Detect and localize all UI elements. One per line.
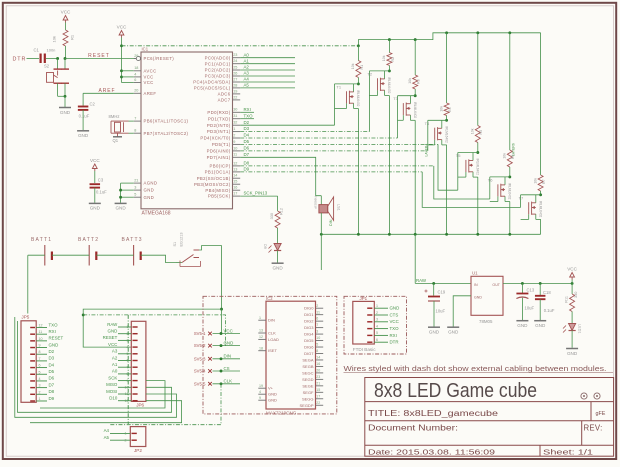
svg-text:D9: D9 [49,396,55,401]
ground below S2 [59,107,71,109]
resistor gate pull-up 10k for T6 [509,33,511,150]
svg-text:A3: A3 [244,71,250,76]
svg-text:T7: T7 [519,195,524,200]
svg-text:3: 3 [316,330,318,334]
svg-text:JP1: JP1 [360,296,368,301]
svg-text:IC1: IC1 [142,47,149,52]
svg-text:2: 2 [125,438,127,442]
svg-text:T2: T2 [367,71,372,76]
svg-text:T5: T5 [456,153,461,158]
svg-text:IRLML6402: IRLML6402 [538,201,542,218]
svg-text:27: 27 [233,77,237,81]
switch S2 reset button [57,59,59,70]
ground below C2 [77,130,89,132]
svg-text:PC3(ADC3): PC3(ADC3) [205,74,231,79]
wire layer drive D4 to T3 [240,137,397,139]
svg-text:D9: D9 [263,244,267,249]
svg-text:TXO: TXO [244,113,254,118]
svg-text:TITLE: 8x8LED_gamecube: TITLE: 8x8LED_gamecube [368,409,499,418]
svg-text:GND: GND [49,342,59,347]
capacitor C18 0.1uF [539,283,541,295]
svg-text:15: 15 [233,180,237,184]
wire gate stub T6 [497,196,499,201]
svg-text:C3: C3 [98,178,104,183]
svg-text:2: 2 [316,304,318,308]
svg-text:D2: D2 [244,120,250,125]
svg-text:PB6(XTAL1/TOSC1): PB6(XTAL1/TOSC1) [144,119,189,124]
svg-text:30: 30 [233,108,237,112]
svg-text:13: 13 [259,329,263,333]
capacitor C19 10uF [428,296,440,298]
svg-text:78M05: 78M05 [479,319,493,324]
svg-text:D7: D7 [49,382,55,387]
svg-text:D10: D10 [109,396,118,401]
wire U1 ground pin [453,296,471,327]
svg-text:8: 8 [316,349,318,353]
svg-text:9: 9 [233,140,235,144]
svg-text:PB5(SCK): PB5(SCK) [208,194,231,199]
wire VCC dash-dot bus top [122,45,359,47]
svg-text:16: 16 [233,186,237,190]
svg-text:TXO: TXO [49,322,59,327]
svg-text:15: 15 [316,388,320,392]
svg-text:DTR: DTR [13,56,27,62]
svg-text:SEGC: SEGC [302,370,313,375]
resistor gate pull-up 10k for T4 [446,33,448,103]
svg-text:11: 11 [233,153,237,157]
ground below U1 [447,326,459,328]
svg-text:R3: R3 [417,79,421,84]
transistor T1 IRLML6402 [335,83,359,85]
svg-text:GND: GND [567,351,578,356]
svg-text:20: 20 [134,89,138,93]
svg-text:PB1(OC1A): PB1(OC1A) [205,170,231,175]
svg-text:10: 10 [233,146,237,150]
wire AREF [83,92,134,94]
ground below C18 [534,320,546,322]
svg-text:CTS: CTS [390,312,399,317]
wire battery series [28,254,45,256]
svg-text:TXO: TXO [390,326,400,331]
module frame LED driver dashed [203,296,337,414]
svg-text:PD0(RXD): PD0(RXD) [207,110,230,115]
junction VCC distribution [220,308,223,311]
wire gate stub T5 [465,172,467,177]
svg-text:10k: 10k [351,63,355,69]
svg-text:VCC: VCC [144,75,154,80]
capacitor C13 10uF [521,283,523,293]
svg-text:21: 21 [134,179,138,183]
svg-text:PC0(ADC0): PC0(ADC0) [205,55,231,60]
IC1 right pins group PC [233,57,241,59]
junction gate T2 [388,69,391,72]
svg-text:A2: A2 [244,65,250,70]
wire SPI staircase D10 [30,401,182,423]
svg-text:DIG7: DIG7 [304,351,314,356]
svg-text:DIN: DIN [224,354,232,359]
svg-text:10: 10 [316,336,320,340]
wire gate stub T2 [377,90,379,95]
svg-text:DIG3: DIG3 [304,325,314,330]
svg-text:9: 9 [259,396,261,400]
title block frame [365,378,614,457]
svg-text:ISET: ISET [268,348,277,353]
svg-text:10k: 10k [52,36,57,42]
connector JP6 [131,321,146,401]
svg-text:19: 19 [233,89,237,93]
svg-text:A2: A2 [112,355,118,360]
svg-text:SEGB: SEGB [302,364,313,369]
svg-text:VCC: VCC [390,319,399,324]
svg-text:DTR: DTR [390,340,399,345]
svg-text:JP6: JP6 [136,402,144,407]
svg-text:GND: GND [108,329,118,334]
svg-text:PC5(ADC5/SCL): PC5(ADC5/SCL) [194,86,231,91]
svg-text:D4: D4 [244,133,250,138]
svg-text:D2: D2 [49,349,55,354]
svg-text:PD2(INT0): PD2(INT0) [207,123,231,128]
svg-text:PC6(/RESET): PC6(/RESET) [144,56,175,61]
svg-text:GND: GND [448,330,459,335]
wire S2 to GND [57,83,59,96]
svg-text:T4: T4 [425,121,430,126]
wire layer drive D5 to T5 [240,143,438,145]
junction gate T6 [508,175,511,178]
svg-text:3: 3 [39,384,41,388]
svg-text:GND: GND [60,110,71,115]
resistor gate pull-up 10k for T7 [540,33,542,175]
svg-text:PB2(SS/OC1B): PB2(SS/OC1B) [197,176,231,181]
svg-text:LAYER6: LAYER6 [512,143,516,156]
svg-text:PD7(AIN1): PD7(AIN1) [207,155,231,160]
wire SCK_PIN13 [240,195,277,197]
svg-text:D5: D5 [49,369,55,374]
junction gate T1 [357,82,360,85]
svg-text:U1: U1 [472,271,478,276]
svg-text:DIG4: DIG4 [304,332,314,337]
svg-text:MAX7219CNG: MAX7219CNG [266,410,297,415]
svg-text:17: 17 [233,192,237,196]
svg-text:GND: GND [224,340,234,345]
svg-text:CS: CS [224,366,230,371]
wire switch to modules VCC [199,246,222,310]
svg-text:PD5(T1): PD5(T1) [212,142,231,147]
svg-text:PC1(ADC1): PC1(ADC1) [205,61,231,66]
svg-text:MISO: MISO [106,382,118,387]
svg-text:OUT: OUT [492,283,500,287]
svg-text:IC2: IC2 [266,296,273,301]
svg-text:5: 5 [134,193,136,197]
svg-text:28: 28 [233,83,237,87]
svg-text:RXI: RXI [390,333,397,338]
svg-text:RAW: RAW [416,278,427,283]
svg-text:PD1(TXD): PD1(TXD) [208,116,231,121]
capacitor C1 100n [39,54,41,64]
ground below LED D9 [272,262,284,264]
svg-text:2: 2 [376,311,378,315]
svg-text:22: 22 [316,401,320,405]
connector JP2 [130,427,146,447]
net RXI [240,111,254,113]
wire SPI staircase SCK [40,381,165,408]
svg-text:T6: T6 [488,177,493,182]
svg-text:PB0(ICP): PB0(ICP) [210,164,231,169]
ground below C3 [89,202,101,204]
junction gate T5 [476,151,479,154]
svg-text:8MHz: 8MHz [109,114,120,119]
svg-text:4: 4 [134,72,136,76]
svg-text:10uF: 10uF [436,309,446,314]
svg-text:SV5-5: SV5-5 [194,381,206,386]
wire layer drive D3 to T2 [240,131,369,133]
svg-text:DIG0: DIG0 [304,306,314,311]
svg-text:5: 5 [376,331,378,335]
svg-text:12: 12 [233,161,237,165]
svg-text:IRLML6402: IRLML6402 [356,90,360,107]
resistor gate pull-up 10k for T2 [388,40,390,53]
svg-text:VCC: VCC [117,24,127,29]
svg-text:20: 20 [316,369,320,373]
svg-text:CLK: CLK [268,331,276,336]
svg-text:GND: GND [272,266,283,271]
junction VCC pin4 [120,75,123,78]
svg-text:1: 1 [233,127,235,131]
svg-text:BATT1: BATT1 [31,237,52,243]
svg-text:9: 9 [39,344,41,348]
svg-text:7: 7 [316,323,318,327]
svg-text:PC4(ADC4/SDA): PC4(ADC4/SDA) [193,80,230,85]
transistor T3 IRLML6402 [398,95,416,97]
svg-text:ADC6: ADC6 [218,92,231,97]
wire bus to RAW input [414,234,416,283]
svg-text:R12: R12 [280,208,284,215]
connector JP1 FTDI [353,301,375,344]
ground for IC1 GND pins [121,182,134,184]
svg-text:4: 4 [259,390,261,394]
wire speaker bus to module [320,234,322,270]
svg-text:25: 25 [233,65,237,69]
svg-text:DIG1: DIG1 [304,312,314,317]
svg-text:10: 10 [39,337,43,341]
svg-text:DIN: DIN [268,318,275,323]
wire battery minus to JP5 [27,255,29,313]
junction C19 [432,282,435,285]
svg-text:IRLML6402: IRLML6402 [508,183,512,200]
svg-text:AREF: AREF [99,88,116,94]
IC1 left pins [134,58,136,60]
svg-text:VCC: VCC [567,266,577,271]
wire dash CLK down to bottom [110,384,221,425]
wire switch down to VCC net row [221,309,223,333]
svg-text:RESET: RESET [88,53,110,59]
svg-text:SEGD: SEGD [302,377,313,382]
svg-text:A1: A1 [112,362,118,367]
svg-text:Wires styled with dash dot sho: Wires styled with dash dot show external… [344,366,607,373]
svg-text:R1: R1 [360,65,364,70]
svg-text:EG1213: EG1213 [180,233,184,247]
svg-text:A4: A4 [244,77,250,82]
svg-text:1: 1 [376,304,378,308]
svg-text:A4: A4 [104,428,110,433]
svg-text:C19: C19 [438,290,446,295]
svg-text:IRLML6402: IRLML6402 [476,159,480,176]
svg-text:R11: R11 [565,296,569,303]
wire layer drive D6 to T4 [240,150,428,152]
wire R1 to reset net [65,46,67,59]
svg-text:LOAD: LOAD [268,337,279,342]
svg-text:BATT3: BATT3 [122,237,143,243]
wire layer drive D9 to T7 [240,171,422,173]
svg-text:VCC: VCC [144,80,154,85]
capacitor C3 0.1uF [90,183,101,185]
svg-text:CLK: CLK [224,379,233,384]
svg-text:LAYER4: LAYER4 [425,144,429,157]
svg-text:gFE: gFE [596,411,606,417]
svg-text:C13: C13 [527,288,535,293]
LED D9 indicator [274,244,281,251]
svg-text:R1: R1 [70,34,75,40]
svg-text:GND: GND [429,330,440,335]
svg-text:DIG6: DIG6 [304,345,314,350]
svg-text:1: 1 [259,316,261,320]
svg-text:10k: 10k [503,153,507,159]
svg-text:1: 1 [39,397,41,401]
svg-text:PC2(ADC2): PC2(ADC2) [205,68,231,73]
svg-text:22: 22 [233,95,237,99]
svg-text:26: 26 [233,71,237,75]
svg-text:330: 330 [574,292,578,298]
svg-text:Sheet: 1/1: Sheet: 1/1 [543,448,593,457]
resistor gate pull-up 10k for T1 [357,46,359,61]
svg-text:SV5-1: SV5-1 [194,331,206,336]
svg-text:D8: D8 [244,161,250,166]
svg-text:PD3(INT1): PD3(INT1) [207,129,231,134]
svg-text:4: 4 [39,377,41,381]
svg-text:REV:: REV: [584,424,603,433]
svg-text:PB7(XTAL2/TOSC2): PB7(XTAL2/TOSC2) [144,131,189,136]
svg-text:18: 18 [134,66,138,70]
svg-text:24: 24 [233,59,237,63]
svg-text:GND: GND [144,188,155,193]
svg-text:GND: GND [78,133,89,138]
wire RESET to IC [65,58,136,60]
wire C1 to reset junction [46,58,58,60]
svg-text:SV5-4: SV5-4 [194,369,206,374]
junction S2 gnd [64,95,67,98]
svg-text:10uF: 10uF [525,306,535,311]
svg-text:23: 23 [233,53,237,57]
transistor T7 IRLML6402 [521,194,541,196]
ground below C19 [428,326,440,328]
svg-text:GND: GND [535,323,546,328]
junction AVCC [120,69,123,72]
resistor gate pull-up 10k for T5 [477,33,479,126]
svg-text:18: 18 [259,346,263,350]
svg-text:FTDI Basic: FTDI Basic [353,347,376,352]
svg-text:R4: R4 [448,107,452,112]
svg-text:LED1: LED1 [578,324,582,334]
svg-text:JP5: JP5 [21,315,29,320]
svg-text:ATMEGA168: ATMEGA168 [142,211,171,217]
speaker LS1 [320,196,322,205]
svg-text:PD4(XCK/T0): PD4(XCK/T0) [200,136,230,141]
svg-text:330: 330 [270,213,274,219]
svg-text:6: 6 [376,338,378,342]
ic IC1 ATMEGA168 body [141,52,233,209]
svg-text:MOSI: MOSI [106,389,117,394]
svg-text:19: 19 [259,384,263,388]
svg-text:BATT2: BATT2 [78,237,99,243]
svg-text:5: 5 [39,370,41,374]
svg-text:VCC: VCC [108,342,117,347]
svg-text:JP2: JP2 [134,448,142,453]
svg-text:1: 1 [125,432,127,436]
svg-text:17: 17 [316,394,320,398]
svg-text:12: 12 [259,335,263,339]
wire VCC distribution to JP6 [83,309,221,347]
wire U1 output VCC [503,282,572,284]
svg-text:13: 13 [233,167,237,171]
wire gate stub T4 [434,140,436,145]
svg-text:RESET: RESET [103,335,118,340]
svg-text:GND: GND [90,206,101,211]
svg-text:ADC7: ADC7 [218,98,231,103]
svg-text:SEGG: SEGG [302,396,314,401]
wires A0-A5 analog stubs [240,57,295,59]
svg-text:SCK_PIN13: SCK_PIN13 [244,191,268,196]
transistor T5 IRLML6402 [458,152,478,154]
svg-text:10k: 10k [439,106,443,112]
svg-text:R2: R2 [391,57,395,62]
svg-text:R7: R7 [542,179,546,184]
svg-text:GND: GND [115,206,126,211]
svg-text:PD6(AIN0): PD6(AIN0) [207,149,231,154]
svg-text:A0: A0 [244,52,250,57]
svg-text:DIG2: DIG2 [304,319,314,324]
svg-text:Document Number:: Document Number: [368,424,458,433]
svg-text:8x8 LED Game cube: 8x8 LED Game cube [374,380,537,402]
svg-text:8: 8 [39,350,41,354]
svg-text:C2: C2 [90,102,96,107]
wire VCC to R1 [65,23,67,31]
wire dash VCC to GND row [83,315,225,346]
regulator U1 78M05 [471,276,503,315]
wire gate stub T7 [528,214,530,219]
svg-text:7: 7 [134,117,136,121]
wire top bus solid [358,33,540,46]
svg-text:D5: D5 [244,139,250,144]
wire SPI staircase MISO [18,321,172,412]
svg-text:SV5-2: SV5-2 [194,343,206,348]
wire dash to JP2 [127,315,129,424]
wire layer drive D2 to T1 [240,124,334,126]
svg-text:10k: 10k [533,178,537,184]
svg-text:D7: D7 [244,152,250,157]
svg-text:3: 3 [134,186,136,190]
svg-text:16: 16 [316,362,320,366]
svg-text:32: 32 [233,121,237,125]
junction VCC dash bus [120,44,123,47]
svg-text:PB4(MISO): PB4(MISO) [205,188,230,193]
svg-text:AGND: AGND [144,181,158,186]
wire bottom supply bus [321,233,540,235]
svg-text:0.1uF: 0.1uF [79,114,90,119]
svg-text:A5: A5 [104,435,110,440]
frame logo circles [581,393,587,399]
svg-text:10k: 10k [382,55,386,61]
svg-text:LS1: LS1 [337,204,341,211]
wire gate stub T1 [346,103,348,108]
